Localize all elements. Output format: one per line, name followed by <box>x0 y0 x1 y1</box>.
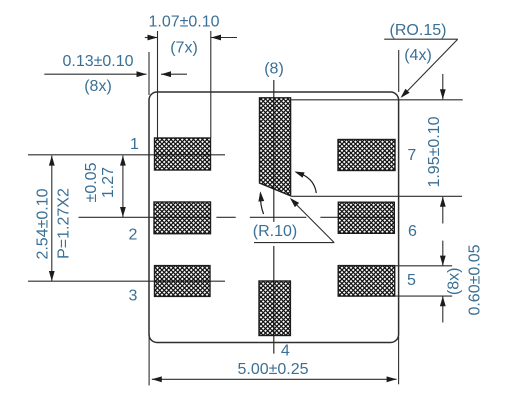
dimension 0.13±0.10 (8x) left top <box>44 52 187 95</box>
svg-text:(RO.15): (RO.15) <box>390 22 447 39</box>
leader (R.10) to pad 8 chamfer <box>254 199 334 242</box>
svg-text:(4x): (4x) <box>404 47 432 64</box>
wire row2 centerline <box>79 216 395 218</box>
wire row3 centerline <box>28 280 225 282</box>
package body outline <box>149 92 399 343</box>
svg-text:3: 3 <box>129 288 138 305</box>
dimension 5.00±0.25 bottom <box>149 334 399 385</box>
svg-text:5.00±0.25: 5.00±0.25 <box>237 361 308 378</box>
svg-text:1.27: 1.27 <box>100 167 117 198</box>
svg-text:6: 6 <box>408 223 417 240</box>
dimension 1.95±0.10 right <box>291 74 462 224</box>
wire vertical centerline pads 8 and 4 <box>273 80 275 354</box>
svg-text:P=1.27X2: P=1.27X2 <box>56 188 73 259</box>
pad 1 <box>155 138 211 170</box>
svg-text:1: 1 <box>130 136 139 153</box>
svg-text:(8x): (8x) <box>446 268 463 296</box>
svg-text:2.54±0.10: 2.54±0.10 <box>35 188 52 259</box>
svg-text:±0.05: ±0.05 <box>83 162 100 202</box>
curved arrow left of pad 8 <box>260 194 263 215</box>
dimension 1.27 ±0.05 left inner <box>122 156 124 217</box>
svg-text:(7x): (7x) <box>170 40 198 57</box>
pad 8 (chamfered) <box>260 98 291 196</box>
svg-text:2: 2 <box>129 227 138 244</box>
svg-text:5: 5 <box>407 272 416 289</box>
svg-text:(R.10): (R.10) <box>253 223 297 240</box>
svg-text:0.13±0.10: 0.13±0.10 <box>62 53 133 70</box>
dimension 0.60±0.05 (8x) right lower <box>395 241 453 323</box>
wire row1 centerline <box>28 154 225 156</box>
svg-text:1.07±0.10: 1.07±0.10 <box>148 14 219 31</box>
svg-text:0.60±0.05: 0.60±0.05 <box>467 244 484 315</box>
pad 5 <box>338 266 395 297</box>
pad 7 <box>338 140 395 171</box>
dimension 1.07±0.10 (7x) top <box>145 31 237 138</box>
pad 3 <box>155 266 211 297</box>
pad 2 <box>154 202 211 234</box>
leader (RO.15) (4x) top right corner <box>384 39 458 96</box>
curved arrow right of pad 8 <box>297 172 317 193</box>
pad 4 <box>259 281 290 336</box>
svg-text:(8): (8) <box>264 61 284 78</box>
svg-text:4: 4 <box>281 343 290 360</box>
dimension 2.54±0.10 P=1.27X2 left <box>51 156 53 281</box>
svg-text:1.95±0.10: 1.95±0.10 <box>426 116 443 187</box>
svg-text:7: 7 <box>407 147 416 164</box>
pad 6 <box>338 202 394 233</box>
svg-text:(8x): (8x) <box>84 78 112 95</box>
